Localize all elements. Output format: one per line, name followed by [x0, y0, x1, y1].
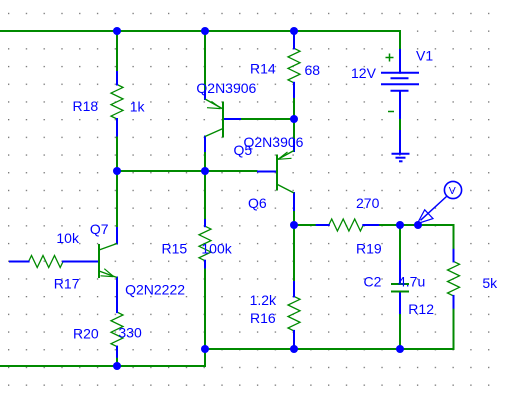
svg-text:5k: 5k [482, 275, 498, 291]
svg-text:270: 270 [356, 195, 380, 211]
svg-text:Q2N3906: Q2N3906 [244, 134, 304, 150]
svg-text:10k: 10k [56, 230, 80, 246]
svg-text:R14: R14 [250, 61, 276, 77]
svg-text:R15: R15 [162, 241, 188, 257]
svg-text:68: 68 [305, 62, 321, 78]
svg-text:Q5: Q5 [234, 142, 253, 158]
svg-text:R20: R20 [73, 326, 99, 342]
svg-text:100k: 100k [201, 241, 232, 257]
svg-text:R17: R17 [54, 275, 80, 291]
svg-text:Q7: Q7 [90, 221, 109, 237]
svg-text:R12: R12 [408, 301, 434, 317]
svg-text:4.7u: 4.7u [398, 274, 425, 290]
svg-text:Q2N3906: Q2N3906 [196, 80, 256, 96]
svg-text:Q2N2222: Q2N2222 [125, 282, 185, 298]
svg-text:1k: 1k [130, 98, 146, 114]
svg-text:R18: R18 [73, 98, 99, 114]
svg-text:R19: R19 [356, 241, 382, 257]
svg-text:Q6: Q6 [248, 195, 267, 211]
svg-text:C2: C2 [364, 274, 382, 290]
svg-text:V: V [449, 185, 456, 197]
svg-text:V1: V1 [416, 48, 433, 64]
svg-text:12V: 12V [351, 65, 377, 81]
svg-text:330: 330 [118, 325, 142, 341]
svg-text:R16: R16 [250, 310, 276, 326]
svg-text:1.2k: 1.2k [250, 292, 277, 308]
